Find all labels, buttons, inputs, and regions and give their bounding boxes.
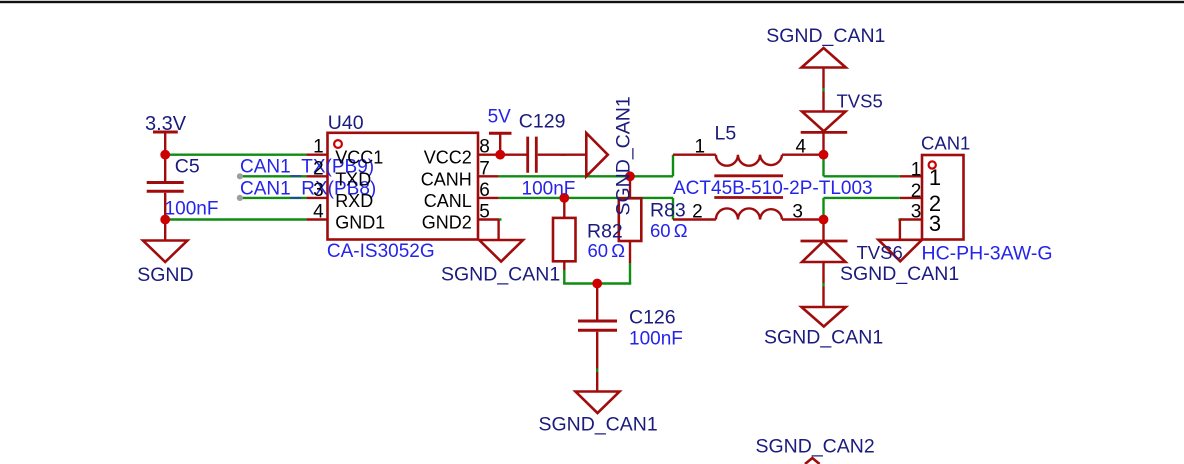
svg-text:4: 4	[796, 137, 807, 158]
svg-text:C5: C5	[175, 156, 200, 178]
wire joint TVS6	[822, 283, 824, 287]
svg-text:3.3V: 3.3V	[145, 113, 187, 135]
svg-text:2: 2	[313, 158, 324, 179]
node L5 pin3 junction	[819, 215, 829, 225]
connector CAN1 pin1 marker circle	[929, 161, 936, 168]
svg-text:SGND: SGND	[137, 264, 193, 286]
svg-text:SGND_CAN1: SGND_CAN1	[764, 326, 883, 348]
svg-text:GND1: GND1	[335, 213, 385, 233]
svg-text:8: 8	[479, 137, 490, 158]
svg-text:100nF: 100nF	[522, 179, 576, 200]
svg-text:1: 1	[911, 159, 922, 180]
unconnected endpoint dot TX	[237, 173, 243, 179]
U40 pin 5 stub	[478, 220, 499, 241]
svg-text:5: 5	[479, 202, 490, 223]
connector CAN1 pin 3 stub	[900, 220, 922, 240]
power arrow SGND_CAN2 apex	[805, 458, 820, 464]
node 5V junction	[495, 150, 505, 160]
U40 pin 4 stub	[306, 218, 327, 220]
wire L5 pin3 to CAN1 pin2	[824, 198, 900, 220]
power 3.3V riser	[164, 132, 166, 155]
tvs TVS6	[822, 220, 824, 242]
wire joint IC pin5 corner	[498, 218, 502, 220]
resistor R82	[563, 198, 565, 218]
U40 pin 7 stub	[478, 175, 499, 177]
capacitor C5	[164, 155, 166, 181]
svg-text:CANL: CANL	[424, 191, 472, 211]
svg-text:100nF: 100nF	[629, 329, 683, 350]
wire CANH from pin7	[499, 155, 673, 177]
power arrow SGND_CAN1 above TVS5	[802, 48, 846, 68]
node L5 pin4 junction	[819, 150, 829, 160]
U40 pin 6 stub	[478, 197, 499, 199]
svg-text:VCC2: VCC2	[424, 148, 472, 168]
svg-text:GND2: GND2	[422, 213, 472, 233]
connector CAN1 pin 1 stub	[900, 175, 922, 177]
ground SGND_CAN1 at CAN1 pin3	[878, 240, 922, 261]
power 3.3V bar	[153, 131, 178, 134]
svg-text:U40: U40	[328, 112, 364, 134]
svg-text:SGND_CAN1: SGND_CAN1	[613, 96, 635, 215]
svg-text:HC-PH-3AW-G: HC-PH-3AW-G	[922, 243, 1053, 265]
svg-text:60Ω: 60Ω	[588, 240, 626, 261]
U40 pin 8 stub and wire to C129	[478, 153, 527, 155]
ground arrow SGND_CAN1 right	[586, 133, 608, 176]
connector CAN1 pin 2 stub	[900, 197, 922, 199]
svg-text:2: 2	[911, 181, 922, 202]
wire joint C126	[596, 369, 598, 373]
L5 coupling bars	[714, 176, 783, 198]
U40 pin 2 stub	[306, 175, 327, 177]
wire joint CAN1 pin3 corner	[898, 218, 902, 220]
svg-text:1: 1	[929, 165, 941, 190]
svg-text:SGND_CAN2: SGND_CAN2	[756, 436, 875, 458]
svg-text:CA-IS3052G: CA-IS3052G	[327, 241, 435, 262]
U40 pin 1 stub	[306, 153, 327, 155]
unconnected endpoint dot RX	[237, 195, 243, 201]
svg-text:1: 1	[313, 137, 324, 158]
svg-text:TVS6: TVS6	[857, 242, 903, 263]
inductor L5 winding A	[673, 153, 716, 155]
svg-text:SGND_CAN1: SGND_CAN1	[539, 414, 658, 436]
svg-text:R83: R83	[650, 200, 686, 222]
tvs TVS5	[822, 68, 824, 112]
svg-text:C126: C126	[629, 306, 676, 328]
svg-text:SGND_CAN1: SGND_CAN1	[840, 263, 959, 285]
power 5V bar	[489, 132, 512, 135]
svg-text:60Ω: 60Ω	[650, 220, 688, 241]
wire R82 bottom	[563, 270, 565, 284]
power 5V riser	[499, 133, 501, 155]
wire L5 pin4 to CAN1 pin1	[824, 155, 900, 177]
svg-text:CANH: CANH	[421, 169, 472, 189]
svg-text:3: 3	[313, 180, 324, 201]
capacitor C126	[596, 284, 598, 321]
junction dots	[160, 150, 828, 289]
wire CANL from pin6	[499, 198, 673, 220]
node C126 junction	[592, 279, 602, 289]
U40 pin 3 stub	[306, 197, 327, 199]
svg-text:VCC1: VCC1	[335, 148, 383, 168]
svg-text:3: 3	[792, 201, 803, 222]
resistor R83	[629, 176, 631, 198]
svg-text:SGND_CAN1: SGND_CAN1	[766, 25, 885, 47]
wire joint C129 to gnd arrow	[561, 153, 566, 155]
svg-text:3: 3	[911, 202, 922, 223]
wire TXD row	[241, 175, 306, 177]
ic U40 body	[328, 133, 479, 240]
capacitor C129	[528, 137, 537, 173]
node R83 top junction	[625, 171, 635, 181]
node R82 top junction	[559, 193, 569, 203]
node C5 top junction	[160, 150, 170, 160]
svg-text:C129: C129	[519, 111, 566, 133]
svg-text:TXD: TXD	[335, 169, 371, 189]
U40 pin1 marker circle	[334, 140, 342, 148]
sheet top border	[0, 1, 1184, 3]
svg-text:5V: 5V	[488, 106, 512, 127]
svg-text:CAN1: CAN1	[921, 133, 970, 154]
wire joint TVS5	[822, 88, 824, 92]
svg-text:RXD: RXD	[335, 191, 373, 211]
wire RXD row	[241, 197, 306, 199]
svg-text:3: 3	[929, 211, 941, 236]
svg-text:L5: L5	[715, 123, 737, 145]
wire bottom row R82-R83	[563, 282, 631, 284]
ground SGND_CAN1 below TVS6	[802, 307, 846, 327]
connector CAN1 body	[922, 155, 964, 240]
svg-text:100nF: 100nF	[165, 198, 219, 219]
svg-text:2: 2	[692, 201, 703, 222]
wire VCC1 row	[165, 153, 306, 155]
svg-text:6: 6	[479, 180, 490, 201]
inductor L5 winding B	[673, 218, 716, 220]
svg-text:1: 1	[695, 137, 706, 158]
ground SGND_CAN1 at U40 pin5	[479, 240, 523, 262]
svg-text:ACT45B-510-2P-TL003: ACT45B-510-2P-TL003	[673, 178, 873, 199]
svg-text:7: 7	[479, 158, 490, 179]
node C5 bottom junction	[160, 215, 170, 225]
svg-text:SGND_CAN1: SGND_CAN1	[441, 264, 560, 286]
wire GND1 row	[165, 218, 306, 220]
svg-text:4: 4	[313, 202, 324, 223]
wire R83 bottom	[629, 263, 631, 284]
ground SGND_CAN1 below C126	[576, 392, 620, 414]
ground SGND	[164, 220, 166, 241]
svg-text:TVS5: TVS5	[837, 91, 883, 112]
